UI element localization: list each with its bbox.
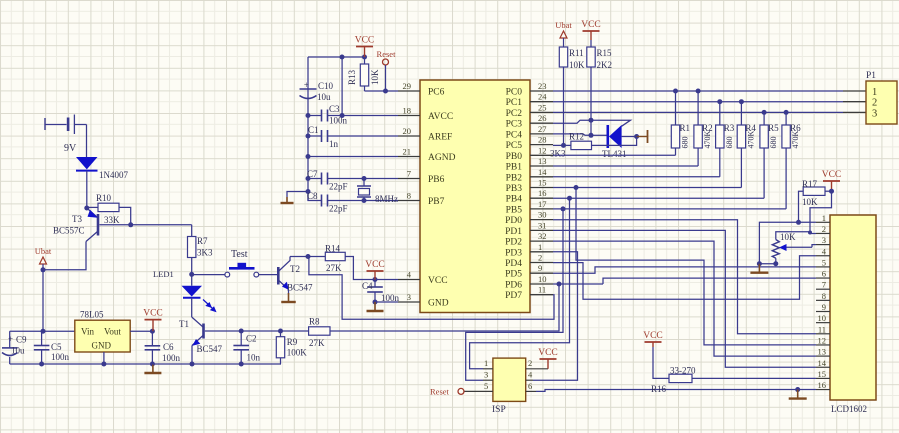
node C5 rail — [39, 362, 44, 367]
wire C9 drop — [9, 331, 11, 348]
label R5 — [768, 123, 779, 133]
wire cap bus left — [307, 57, 309, 201]
svg-text:3: 3 — [872, 109, 877, 120]
svg-text:VCC: VCC — [355, 36, 375, 46]
wire R5 bottom — [763, 148, 765, 198]
label R10 value 33K — [104, 215, 120, 225]
svg-text:T1: T1 — [179, 319, 189, 329]
node cap link AVCC — [340, 113, 345, 118]
label R14 value 27K — [326, 263, 342, 273]
Ubat power port left — [35, 246, 52, 264]
crystal Y1 8MHz — [357, 179, 371, 201]
wire T2 collector row — [290, 256, 325, 258]
label C5 value 100n — [51, 352, 70, 362]
label C5 — [51, 342, 62, 352]
wire PC4 row — [553, 134, 591, 135]
node TL431 anode — [634, 134, 639, 139]
svg-text:Ubat: Ubat — [35, 246, 52, 256]
svg-text:PC5: PC5 — [506, 141, 523, 151]
label LED1 — [153, 269, 174, 279]
svg-text:7: 7 — [407, 169, 411, 179]
label R7 value 3K3 — [197, 248, 213, 258]
svg-text:T3: T3 — [72, 214, 82, 224]
node bus PB6 — [306, 176, 311, 181]
label C9 — [8, 334, 27, 345]
svg-text:VCC: VCC — [581, 20, 601, 30]
label 78L05 — [80, 310, 104, 320]
svg-text:LCD1602: LCD1602 — [831, 404, 867, 414]
node C6 rail — [150, 362, 155, 367]
svg-text:3K3: 3K3 — [197, 248, 213, 258]
svg-text:R10: R10 — [96, 193, 112, 203]
MCU left pin labels — [428, 88, 456, 309]
resistor R15 — [587, 40, 595, 67]
svg-text:2: 2 — [872, 98, 877, 109]
wire R6 top — [785, 112, 787, 125]
resistor R16 — [669, 374, 692, 382]
ground crystal area — [281, 197, 294, 203]
svg-text:ISP: ISP — [492, 405, 506, 415]
svg-text:27K: 27K — [309, 338, 325, 348]
transistor T2 BC547 — [278, 257, 290, 290]
label C3 value — [329, 116, 348, 126]
label R9 value 100K — [287, 348, 308, 358]
svg-text:30: 30 — [538, 210, 547, 220]
label 1N4007 — [99, 170, 128, 180]
svg-text:10u: 10u — [11, 346, 25, 356]
svg-text:PB2: PB2 — [506, 173, 523, 183]
node Reset PC6 — [383, 89, 388, 94]
wire T1 base line — [205, 330, 241, 332]
label C6 value 100n — [162, 353, 181, 363]
wire cathode to TL431 — [591, 134, 607, 136]
svg-text:Vin: Vin — [81, 327, 94, 337]
svg-text:33-270: 33-270 — [670, 366, 696, 376]
label TL431 — [602, 149, 627, 159]
svg-text:AVCC: AVCC — [428, 112, 453, 122]
label C10 — [304, 80, 334, 91]
wire PC1 row to P1 — [553, 101, 866, 103]
node REF PC3 — [589, 118, 594, 123]
svg-text:C3: C3 — [329, 104, 340, 114]
wire PD7 to T2 collector — [309, 258, 554, 319]
svg-text:100n: 100n — [329, 116, 348, 126]
ground C4 — [367, 302, 384, 311]
svg-text:R14: R14 — [325, 244, 341, 254]
svg-text:20: 20 — [403, 126, 412, 136]
svg-text:Ubat: Ubat — [555, 20, 572, 30]
svg-text:8: 8 — [407, 191, 411, 201]
wire PC2 row to P1 — [553, 111, 866, 113]
svg-text:PD6: PD6 — [505, 281, 522, 291]
svg-text:C10: C10 — [318, 81, 334, 91]
resistor R12 — [571, 141, 592, 149]
label C7 value 22pF — [329, 182, 348, 192]
svg-text:10: 10 — [818, 313, 827, 323]
label R8 — [309, 317, 320, 327]
Reset port top — [377, 49, 397, 65]
svg-text:R16: R16 — [651, 384, 667, 394]
node trimmer gnd — [757, 261, 762, 266]
svg-text:BC547: BC547 — [287, 283, 313, 293]
label R4 value — [746, 131, 755, 149]
wire R3 top — [719, 102, 721, 125]
ISP pin stubs — [464, 369, 548, 392]
P1 pin 1 — [872, 87, 877, 98]
svg-text:PC0: PC0 — [506, 88, 523, 98]
svg-text:2: 2 — [528, 358, 532, 368]
label T2 BC547 — [287, 283, 313, 293]
svg-text:R5: R5 — [768, 123, 779, 133]
wire PB4 to ISP1 — [470, 198, 570, 369]
connector P1 box — [866, 81, 897, 124]
node PB4 tap — [567, 196, 572, 201]
svg-text:3: 3 — [822, 235, 826, 245]
node LED1 anode — [189, 272, 194, 277]
wire PD6 jog to LCD6 — [603, 278, 816, 284]
resistor R10 — [87, 203, 119, 211]
wire Ubat to R11 — [563, 38, 565, 47]
svg-text:C5: C5 — [51, 342, 62, 352]
label R11 value 10K — [569, 60, 585, 70]
node R6 top — [784, 110, 789, 115]
VCC symbol R16 — [643, 331, 663, 347]
wire R10 right jog — [119, 207, 131, 224]
label T1 — [179, 319, 189, 329]
node PB3 tap — [574, 185, 579, 190]
wire PB5 row — [553, 208, 786, 210]
node cathode PC4 — [589, 133, 594, 138]
wire rail to R9 — [280, 363, 283, 365]
label R8 value 27K — [309, 338, 325, 348]
svg-text:Test: Test — [231, 249, 248, 260]
node C2 top — [239, 329, 244, 334]
label R2 value — [703, 131, 712, 149]
label LCD1602 — [831, 404, 867, 414]
label C9 value 10u — [11, 346, 25, 356]
node R9 top — [278, 329, 283, 334]
svg-text:PB1: PB1 — [506, 163, 523, 173]
label R11 — [569, 48, 584, 58]
label Vin — [81, 327, 94, 337]
wire PB3 row — [553, 187, 741, 189]
node R10 emitter — [84, 206, 89, 211]
wire 78L05 gnd — [103, 352, 105, 364]
wire PD1 to LCD14 — [553, 230, 816, 367]
label R17 value 10K — [802, 197, 818, 207]
svg-text:R12: R12 — [569, 132, 584, 142]
wire R2 top — [697, 91, 699, 125]
label C1 — [308, 125, 319, 135]
label R1 — [680, 123, 691, 133]
svg-text:PD0: PD0 — [505, 216, 522, 226]
svg-text:C1: C1 — [308, 125, 319, 135]
wire Ubat rail down — [42, 264, 44, 331]
svg-text:Reset: Reset — [430, 387, 450, 397]
label 9V — [64, 143, 77, 154]
wire battery to diode — [86, 125, 88, 158]
wire LED1 to T1 collector — [191, 298, 193, 317]
Ubat power port top — [555, 20, 572, 38]
resistor R11 — [559, 47, 567, 67]
transistor T1 BC547 — [192, 317, 204, 346]
svg-text:1N4007: 1N4007 — [99, 170, 128, 180]
wire PB3 branch to LCD12 — [576, 188, 816, 345]
svg-text:C8: C8 — [307, 191, 318, 201]
Reset port ISP — [430, 387, 464, 397]
resistor R17 — [803, 187, 831, 195]
LED1 diode — [182, 274, 203, 297]
svg-text:GND: GND — [92, 341, 112, 351]
svg-text:PD1: PD1 — [505, 227, 522, 237]
resistor R4 — [737, 125, 745, 148]
svg-text:GND: GND — [428, 299, 449, 309]
svg-text:R8: R8 — [309, 317, 320, 327]
label R4 — [745, 123, 756, 133]
wire R1 top — [675, 91, 677, 125]
wire PC0 row to P1 — [553, 90, 866, 92]
svg-text:100n: 100n — [162, 353, 181, 363]
svg-text:14: 14 — [538, 167, 547, 177]
svg-text:PD4: PD4 — [505, 259, 522, 269]
svg-text:VCC: VCC — [143, 309, 163, 319]
VCC symbol R15 — [581, 20, 601, 40]
svg-text:78L05: 78L05 — [80, 310, 104, 320]
node VCC stem MCU — [373, 277, 378, 282]
label C4 — [362, 281, 373, 291]
capacitor C8 — [308, 192, 398, 207]
svg-text:14: 14 — [818, 358, 827, 368]
wire R5 top — [763, 112, 765, 125]
svg-text:15: 15 — [818, 369, 827, 379]
svg-text:24: 24 — [538, 92, 547, 102]
node R3 top — [717, 99, 722, 104]
svg-text:PB6: PB6 — [428, 175, 445, 185]
svg-text:R9: R9 — [287, 337, 298, 347]
VCC symbol top middle — [355, 36, 375, 58]
node bus AVCC — [306, 113, 311, 118]
wire Test to T2 base — [259, 274, 278, 276]
svg-text:22pF: 22pF — [329, 182, 348, 192]
wire PB0 row — [553, 154, 676, 156]
wire AGND row — [308, 156, 398, 158]
node R17 gnd join — [796, 220, 801, 225]
wire R16 to LCD15 — [692, 377, 816, 379]
wire T3 collector to Ubat rail — [43, 242, 86, 270]
svg-text:29: 29 — [403, 81, 412, 91]
svg-text:2: 2 — [822, 224, 826, 234]
svg-text:PB5: PB5 — [506, 205, 523, 215]
svg-text:C7: C7 — [307, 169, 318, 179]
svg-text:VCC: VCC — [365, 260, 385, 270]
MCU U1 box — [420, 80, 530, 313]
wire R2 bottom — [697, 148, 699, 166]
resistor R8 — [309, 327, 330, 335]
label R12 value 3K3 — [550, 149, 566, 159]
node PD6 branch — [557, 282, 562, 287]
wire PB2 row — [553, 176, 720, 178]
label R16 value 33-270 — [670, 366, 696, 376]
label R13 — [347, 69, 357, 85]
wire R11 to PC5 row — [563, 67, 565, 145]
svg-text:C4: C4 — [362, 281, 373, 291]
wire TL431 anode — [622, 136, 637, 138]
wire R4 top — [740, 102, 742, 125]
label P1 — [866, 71, 876, 81]
VCC symbol ISP — [538, 348, 558, 369]
VCC symbol regulator — [143, 309, 163, 332]
label crystal 8MHz — [375, 194, 398, 204]
svg-text:PC4: PC4 — [506, 130, 523, 140]
label Vout — [104, 327, 121, 337]
svg-text:VCC: VCC — [822, 170, 842, 180]
svg-text:13: 13 — [818, 347, 827, 357]
P1 pin 3 — [872, 109, 877, 120]
wire R17 left to LCD1 line — [799, 191, 804, 222]
wire VCC to R16 — [653, 347, 669, 378]
wire LCD pin1 to gnd — [759, 222, 816, 263]
label R16 — [651, 384, 667, 394]
svg-text:100K: 100K — [287, 348, 308, 358]
node R4 top — [739, 99, 744, 104]
label R10 — [96, 193, 112, 203]
svg-text:1: 1 — [538, 242, 542, 252]
svg-text:6: 6 — [528, 381, 532, 391]
label trimmer 10K — [780, 232, 796, 242]
svg-text:7: 7 — [822, 280, 826, 290]
svg-text:9: 9 — [822, 302, 826, 312]
node R5 top — [762, 110, 767, 115]
wire R6 bottom — [785, 148, 787, 209]
svg-text:27: 27 — [538, 124, 547, 134]
svg-text:13: 13 — [538, 156, 547, 166]
svg-text:PB3: PB3 — [506, 184, 523, 194]
wire PD3 to ISP4 — [533, 252, 578, 380]
svg-text:17: 17 — [538, 199, 547, 209]
svg-text:VCC: VCC — [643, 331, 663, 341]
wire R1 bottom — [675, 148, 677, 155]
svg-text:2: 2 — [538, 253, 542, 263]
svg-text:R17: R17 — [802, 179, 818, 189]
svg-text:25: 25 — [538, 102, 547, 112]
svg-text:C9: C9 — [16, 335, 27, 345]
svg-text:BC547: BC547 — [197, 344, 223, 354]
wire TL431 ref loop — [591, 120, 631, 126]
svg-text:+: + — [8, 334, 13, 344]
node PB5 tap — [561, 206, 566, 211]
svg-text:5: 5 — [822, 257, 826, 267]
svg-text:R11: R11 — [569, 48, 584, 58]
wire PC6 row — [365, 90, 399, 92]
VCC symbol MCU — [365, 260, 385, 280]
capacitor C9 — [2, 348, 18, 364]
resistor R2 — [694, 125, 702, 148]
svg-text:22pF: 22pF — [329, 204, 348, 214]
svg-text:R13: R13 — [347, 69, 357, 85]
svg-text:1: 1 — [822, 213, 826, 223]
svg-text:PD5: PD5 — [505, 270, 522, 280]
label C4 value 100n — [381, 293, 400, 303]
svg-text:R3: R3 — [724, 123, 735, 133]
svg-text:680: 680 — [769, 137, 778, 149]
resistor R6 — [782, 125, 790, 148]
MCU right pin numbers — [538, 81, 547, 295]
wire PD0 to LCD11 — [553, 220, 816, 334]
label C8 — [307, 191, 318, 201]
wire PB1 row — [553, 165, 698, 167]
trimmer RV1 10K — [772, 232, 816, 264]
svg-text:R15: R15 — [597, 48, 613, 58]
label C1 value — [329, 139, 339, 149]
capacitor C6 — [145, 331, 161, 364]
label R5 value — [769, 137, 778, 149]
svg-text:3: 3 — [407, 292, 411, 302]
node trimmer bottom — [773, 261, 778, 266]
TL431 ref bar terminal — [637, 130, 648, 143]
resistor R7 — [188, 237, 196, 258]
capacitor C2 — [233, 331, 249, 364]
wire GND row MCU — [375, 301, 398, 303]
wire R4 bottom — [740, 148, 742, 188]
node bus AGND — [306, 154, 311, 159]
svg-text:32: 32 — [538, 231, 547, 241]
svg-text:PC2: PC2 — [506, 109, 523, 119]
label Test — [231, 249, 248, 260]
resistor R1 — [671, 125, 679, 148]
wire PD6 row to LCD — [553, 283, 603, 285]
svg-text:1: 1 — [872, 87, 877, 98]
node cap column top — [340, 55, 345, 60]
svg-text:16: 16 — [818, 380, 827, 390]
capacitor C5 — [34, 331, 50, 364]
wire base line C2 R9 — [241, 330, 308, 332]
wire PD2 to LCD13 — [553, 241, 816, 356]
svg-text:Vout: Vout — [104, 327, 121, 337]
svg-text:12: 12 — [818, 335, 827, 345]
label T2 — [290, 264, 300, 274]
svg-text:PB4: PB4 — [506, 195, 523, 205]
capacitor C3 — [308, 110, 398, 122]
ground rail left — [144, 364, 161, 373]
svg-text:16: 16 — [538, 188, 547, 198]
svg-text:21: 21 — [403, 147, 412, 157]
svg-text:PD3: PD3 — [505, 248, 522, 258]
label R17 — [802, 179, 818, 189]
wire LED node to Test — [192, 274, 225, 276]
wire T3 base row — [100, 224, 192, 226]
svg-text:P1: P1 — [866, 71, 876, 81]
label C7 — [307, 169, 318, 179]
label R14 — [325, 244, 341, 254]
switch Test — [225, 263, 259, 277]
svg-text:R1: R1 — [680, 123, 691, 133]
node Ubat rail Vin — [41, 329, 46, 334]
wire Vout row — [130, 330, 152, 332]
node bus AREF — [306, 134, 311, 139]
label T3 — [72, 214, 82, 224]
resistor R13 — [360, 57, 368, 91]
svg-text:LED1: LED1 — [153, 269, 174, 279]
wire top rail to VCC node — [308, 56, 365, 58]
LCD pin numbers — [818, 213, 827, 390]
svg-text:470K: 470K — [746, 131, 755, 149]
label R15 value 2K2 — [597, 60, 613, 70]
label C8 value 22pF — [329, 204, 348, 214]
label R1 value — [681, 137, 690, 149]
node 78L05 gnd — [101, 362, 106, 367]
connector ISP box — [493, 358, 526, 401]
svg-text:PC6: PC6 — [428, 88, 445, 98]
